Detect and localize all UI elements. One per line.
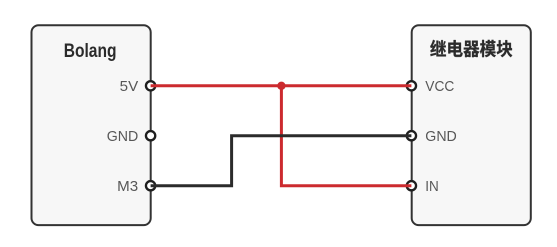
module U1 body (Bolang board) [32,25,151,225]
label: pin U1.3 "M3" [117,179,138,195]
label: pin U2.3 "IN" [425,179,439,195]
pin U1.2 (GND) terminal [146,131,155,140]
label: pin U1.1 "5V" [120,79,139,95]
svg-text:M3: M3 [117,179,138,195]
label: module U1 title "Bolang" [64,40,117,62]
label: pin U1.2 "GND" [107,129,139,145]
svg-text:IN: IN [425,179,439,195]
svg-text:Bolang: Bolang [64,40,117,62]
module U2 body (relay module 继电器模块) [412,25,531,225]
label: pin U2.2 "GND" [425,129,457,145]
wire: U1.M3 to U2.GND (black) [151,136,412,186]
svg-text:GND: GND [425,129,457,145]
pin U1.1 (5V) terminal [146,81,155,90]
wire: U1.5V to U2.VCC (red, net 5V) [151,84,412,87]
svg-text:GND: GND [107,129,139,145]
label: pin U2.1 "VCC" [425,79,454,95]
pin U2.3 (IN) terminal [407,181,416,190]
pin U2.2 (GND) terminal [407,131,416,140]
pin U1.3 (M3) terminal [146,181,155,190]
svg-text:VCC: VCC [425,79,454,95]
junction node on 5V net [277,82,285,90]
pin U2.1 (VCC) terminal [407,81,416,90]
svg-text:5V: 5V [120,79,139,95]
wire: 5V net branch from junction to U2.IN (red) [281,86,411,186]
label: module U2 title "继电器模块" (vector glyphs) [430,40,512,57]
